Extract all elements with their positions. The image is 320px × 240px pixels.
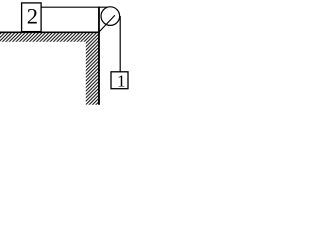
- svg-text:1: 1: [117, 72, 126, 91]
- svg-text:2: 2: [27, 4, 38, 29]
